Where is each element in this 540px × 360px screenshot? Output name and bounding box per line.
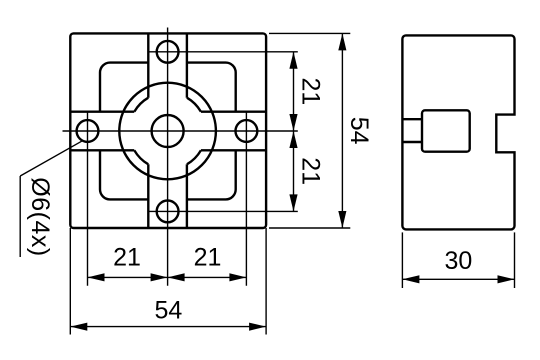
top slot left edge line (147, 33, 149, 97)
horizontal centerline (63, 130, 298, 132)
left slot top edge line (70, 110, 134, 112)
arrowhead 21 upper top (289, 52, 297, 69)
arrowhead 21 left dim left (88, 273, 105, 281)
circular pocket circle (119, 83, 216, 180)
svg-text:21: 21 (296, 77, 324, 105)
bottom slot right edge line (186, 164, 188, 228)
central boss arc, top-left sector (134, 98, 148, 112)
hole left (77, 120, 99, 142)
left hole centerline (87, 112, 89, 286)
left slot bottom edge line (70, 149, 134, 151)
arrowhead 54 horizontal left (70, 323, 87, 331)
dimension line 21 vertical lower (293, 131, 295, 211)
extension line top right (269, 32, 350, 34)
inner rounded-square contour, top-right corner segment (187, 63, 236, 112)
svg-text:21: 21 (194, 244, 222, 272)
right hole centerline (245, 112, 247, 286)
inner rounded-square contour, bottom-right corner segment (187, 150, 236, 199)
inner rounded-square contour, top-left corner segment (100, 63, 148, 112)
arrowhead 21 left dim right (151, 273, 168, 281)
side view extension line right (514, 232, 516, 288)
hole right (236, 120, 258, 142)
svg-text:21: 21 (113, 244, 141, 272)
svg-text:54: 54 (154, 296, 182, 324)
arrowhead 54 horizontal right (249, 323, 266, 331)
svg-text:Ø6(4x): Ø6(4x) (26, 177, 54, 256)
central boss arc, bottom-left sector (134, 150, 148, 164)
arrowhead 21 right dim right (229, 273, 246, 281)
hole bottom (157, 201, 179, 223)
dimension line 21 vertical upper (293, 52, 295, 131)
right slot bottom edge line (201, 149, 266, 151)
outer square outline of front view (70, 33, 266, 228)
leader line for hole callout (20, 141, 81, 176)
top slot right edge line (186, 33, 188, 97)
hole top (157, 41, 179, 63)
right slot top edge line (201, 110, 266, 112)
arrowhead 21 upper bottom (289, 114, 297, 131)
central boss arc, bottom-right sector (187, 150, 201, 164)
svg-text:21: 21 (296, 157, 324, 185)
arrowhead 54 vertical top (338, 33, 346, 50)
bottom slot left edge line (147, 164, 149, 228)
dimension line 21 horizontal left (88, 276, 168, 278)
side view center boss (422, 110, 470, 151)
arrowhead 30 left (402, 275, 419, 283)
vertical centerline (167, 28, 169, 286)
arrowhead 21 right dim left (168, 273, 185, 281)
side view slot upper line (402, 118, 422, 120)
svg-text:54: 54 (345, 117, 373, 145)
inner rounded-square contour, bottom-left corner segment (100, 150, 148, 199)
dimension line 54 horizontal (70, 326, 266, 328)
arrowhead 30 right (498, 275, 515, 283)
side view slot lower line (402, 141, 422, 143)
dimension line 54 vertical (341, 33, 343, 228)
center hole (152, 115, 184, 147)
arrowhead 21 lower bottom (289, 194, 297, 211)
extension line bottom left 54 (69, 228, 71, 335)
svg-text:30: 30 (444, 247, 472, 275)
central boss arc, top-right sector (187, 98, 201, 112)
side view extension line left (401, 232, 403, 288)
side view outline with right notch (402, 35, 514, 229)
top hole centerline (149, 51, 298, 53)
arrowhead 21 lower top (289, 131, 297, 148)
arrowhead 54 vertical bottom (338, 211, 346, 228)
dimension line 21 horizontal right (168, 276, 247, 278)
extension line bottom right 54 (265, 228, 267, 335)
dimension line 30 (402, 278, 514, 280)
bottom hole centerline (149, 210, 298, 212)
extension line bottom right (269, 227, 350, 229)
label shelf line (19, 176, 21, 257)
